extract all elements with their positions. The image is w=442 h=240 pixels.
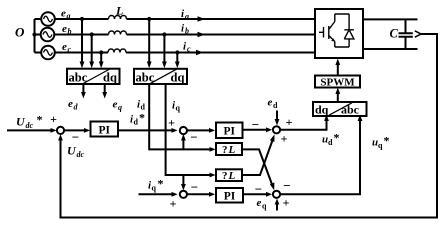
summing junction ud: [273, 126, 280, 133]
arrow ed out: [81, 84, 86, 99]
wire va down: [80, 19, 85, 68]
sign plus eq: [283, 196, 290, 210]
svg-text:PI: PI: [224, 191, 236, 203]
label L: [115, 4, 123, 18]
summing junction q: [180, 191, 187, 198]
label ec: [62, 41, 72, 54]
svg-text:C: C: [390, 27, 399, 41]
inductor L phase a: [109, 16, 127, 19]
label C: [390, 27, 399, 41]
sign minus PI4 out: [255, 182, 262, 197]
summing junction uq: [273, 191, 280, 198]
svg-text:?: ?: [222, 170, 228, 182]
label eb: [62, 23, 72, 36]
sign minus qsum: [191, 180, 198, 195]
svg-text:*: *: [384, 134, 390, 148]
ac source ec: [41, 46, 55, 60]
svg-text:dq: dq: [103, 71, 117, 85]
block wL2: [216, 169, 242, 182]
svg-text:L: L: [228, 170, 236, 182]
label eq 2: [257, 197, 268, 211]
wire Udc feedback: [58, 34, 437, 218]
svg-text:−: −: [72, 130, 79, 145]
wire wL1 to uq sum diagonal: [242, 149, 274, 190]
svg-text:U: U: [67, 144, 77, 158]
wire iq branch down to qsum: [181, 175, 186, 191]
inductor L phase c: [108, 49, 126, 52]
junction vc: [99, 50, 103, 54]
svg-text:a: a: [185, 12, 189, 21]
svg-text:?: ?: [222, 144, 228, 156]
wire dc rail bottom: [363, 48, 418, 50]
inductor L phase b: [109, 31, 127, 34]
label ud*: [322, 131, 340, 148]
svg-text:dc: dc: [26, 121, 34, 130]
wire Udc* in: [7, 128, 57, 133]
label iq: [172, 100, 181, 113]
svg-text:PI: PI: [223, 126, 235, 138]
label iq*: [148, 177, 164, 193]
wire PI2 to usum d: [243, 127, 273, 132]
wire ud* to dq/abc: [280, 115, 329, 130]
svg-text:*: *: [139, 111, 145, 125]
block PI1: [91, 122, 119, 137]
wire dsum to PI2: [187, 128, 215, 133]
wire sum to PI1: [64, 128, 90, 133]
svg-text:dc: dc: [77, 150, 85, 159]
label ea: [61, 8, 71, 21]
svg-text:d: d: [328, 138, 333, 147]
svg-text:q: q: [262, 202, 267, 211]
block SPWM: [315, 76, 360, 89]
sign plus wL2 in: [281, 132, 288, 146]
svg-text:O: O: [15, 25, 25, 40]
wire ib down: [162, 35, 167, 69]
junction neutral: [32, 32, 36, 36]
wire PI1 to dsum: [118, 128, 178, 133]
svg-text:−: −: [191, 180, 198, 195]
converter bridge: [315, 9, 363, 58]
label id: [137, 99, 146, 112]
capacitor C: [399, 19, 413, 49]
svg-text:U: U: [16, 115, 26, 129]
svg-text:+: +: [283, 196, 290, 210]
current arrow phase b: [198, 32, 206, 37]
svg-text:q: q: [176, 104, 181, 113]
svg-text:dq: dq: [171, 71, 185, 85]
wire ic down: [175, 53, 180, 69]
wire neutral bus: [35, 19, 42, 53]
junction vb: [90, 32, 94, 36]
svg-text:abc: abc: [341, 103, 360, 117]
arrow iq to wL2: [210, 173, 216, 178]
svg-text:L: L: [228, 144, 236, 156]
svg-text:q: q: [118, 103, 122, 112]
svg-text:+: +: [281, 132, 288, 146]
sign plus iq*: [170, 197, 177, 211]
wire vc down: [99, 53, 104, 69]
svg-text:dq: dq: [315, 103, 329, 117]
label ib: [181, 23, 189, 36]
block abc/dq current: [134, 69, 187, 85]
svg-text:q: q: [152, 184, 157, 193]
block wL1: [216, 143, 242, 156]
label Udc*: [16, 113, 43, 131]
arrow eq out: [102, 84, 107, 99]
label ic: [183, 41, 191, 54]
svg-text:d: d: [273, 101, 278, 110]
svg-text:*: *: [37, 113, 43, 127]
svg-text:+: +: [168, 116, 175, 130]
summing junction Udc: [57, 127, 64, 134]
svg-text:+: +: [170, 197, 177, 211]
svg-text:c: c: [187, 45, 191, 54]
svg-text:+: +: [286, 115, 293, 129]
label Udc: [67, 144, 85, 160]
svg-text:d: d: [74, 103, 79, 112]
junction va: [80, 17, 84, 21]
svg-text:−: −: [283, 178, 290, 193]
svg-text:PI: PI: [98, 125, 110, 137]
svg-text:e: e: [257, 197, 262, 209]
svg-text:−: −: [190, 130, 197, 145]
junction ib: [162, 32, 166, 36]
diode D: [344, 14, 354, 47]
ac source eb: [41, 28, 55, 42]
wire SPWM to converter: [335, 59, 340, 76]
arrow ed into usum d: [275, 111, 280, 126]
sign plus Udc: [50, 112, 57, 126]
svg-text:q: q: [378, 141, 383, 150]
output arrow: [415, 31, 421, 37]
current arrow phase a: [198, 16, 206, 21]
svg-text:+: +: [50, 112, 57, 126]
svg-text:abc: abc: [136, 71, 155, 85]
svg-text:SPWM: SPWM: [320, 77, 355, 89]
sign plus ed: [286, 115, 293, 129]
label ed 2: [268, 97, 279, 111]
wire iq feedback: [166, 84, 210, 175]
arrow id to wL1: [210, 147, 216, 152]
label id*: [130, 111, 145, 127]
arrow eq into usum q: [275, 199, 280, 211]
svg-text:*: *: [334, 131, 340, 145]
wire wL2 to ud sum diagonal: [242, 134, 275, 175]
wire ia down: [147, 19, 152, 68]
svg-text:b: b: [185, 27, 189, 36]
block PI4: [216, 188, 243, 203]
wire PI4 to usum q: [243, 192, 272, 197]
junction ia: [147, 17, 151, 21]
wire dc rail top: [363, 18, 418, 20]
igbt Q: [319, 14, 349, 47]
ac source ea: [41, 12, 55, 26]
wire iq* in: [139, 192, 178, 197]
wire phase a: [55, 18, 315, 20]
wire dq/abc to SPWM: [335, 88, 340, 103]
wire id feedback: [149, 84, 210, 149]
wire id branch up to dsum: [181, 134, 186, 149]
svg-text:e: e: [68, 98, 73, 110]
label ia: [181, 8, 189, 21]
svg-text:L: L: [115, 4, 123, 18]
block PI2: [216, 123, 243, 139]
svg-text:d: d: [134, 118, 139, 127]
svg-text:e: e: [62, 23, 67, 35]
svg-text:e: e: [268, 97, 273, 109]
wire phase b: [54, 34, 315, 36]
sign minus dsum: [190, 130, 197, 145]
wire qsum to PI4: [187, 192, 215, 197]
svg-text:e: e: [113, 99, 118, 111]
sign minus wL1 in: [283, 178, 290, 193]
node O: [15, 25, 25, 40]
sign minus Udc: [72, 130, 79, 145]
sign minus PI2 out: [252, 117, 259, 132]
label eq: [113, 99, 123, 113]
wire phase c: [55, 52, 315, 54]
current arrow phase c: [196, 50, 204, 55]
block dq/abc: [313, 102, 367, 117]
label ed: [68, 98, 79, 112]
block abc/dq voltage: [67, 69, 120, 85]
summing junction d: [180, 127, 187, 134]
svg-text:e: e: [62, 41, 67, 53]
sign plus dsum: [168, 116, 175, 130]
wire vb down: [89, 35, 94, 69]
junction ic: [175, 50, 179, 54]
wire uq* to dq/abc: [280, 115, 362, 195]
svg-text:e: e: [61, 8, 66, 20]
label uq*: [372, 134, 390, 151]
svg-text:abc: abc: [69, 71, 88, 85]
svg-text:*: *: [158, 177, 164, 191]
